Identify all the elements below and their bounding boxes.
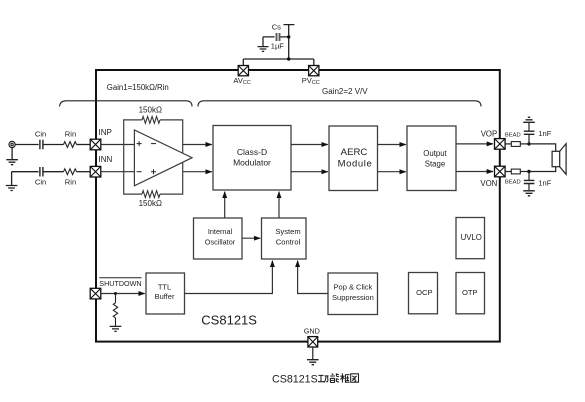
CJK glyph neng — [330, 373, 339, 382]
block Output Stage — [407, 126, 456, 191]
svg-text:TTL: TTL — [158, 282, 171, 291]
svg-text:VOP: VOP — [481, 129, 497, 138]
CJK glyph tu — [351, 374, 359, 382]
block Pop & Click Suppression — [328, 273, 378, 315]
svg-text:Module: Module — [338, 158, 373, 169]
CJK glyph gong — [318, 375, 329, 382]
wire AVcc-PVcc rail — [243, 59, 313, 66]
pin INP — [90, 128, 112, 150]
input terminal J1 — [9, 141, 15, 147]
block UVLO — [456, 218, 485, 259]
svg-text:Internal: Internal — [208, 227, 233, 236]
speaker LS1 — [552, 144, 566, 175]
svg-text:GND: GND — [304, 327, 320, 336]
svg-text:CS8121S: CS8121S — [272, 373, 318, 385]
svg-text:150kΩ: 150kΩ — [139, 105, 162, 114]
resistor Rin bottom — [64, 169, 77, 175]
wire Cin to Rin — [43, 144, 64, 146]
svg-text:Pop & Click: Pop & Click — [334, 283, 373, 292]
svg-text:Rin: Rin — [65, 129, 76, 138]
wire node to pulldown resistor — [115, 294, 117, 303]
block AERC Module — [329, 126, 378, 191]
pin PVCC — [302, 66, 320, 86]
wire INN to op-amp — [101, 171, 135, 173]
ground for Cs — [258, 47, 269, 52]
pin INN — [90, 155, 112, 177]
wire AERC to Output Stage bottom — [378, 171, 406, 173]
IC boundary box CS8121S — [96, 70, 500, 342]
gain2 brace annotation — [198, 101, 481, 107]
wire TTL buffer to System Control — [185, 261, 273, 294]
svg-text:BEAD: BEAD — [505, 179, 521, 185]
svg-text:Gain2=2 V/V: Gain2=2 V/V — [322, 87, 368, 96]
node junction VOP — [527, 142, 530, 145]
wire Rin to INP — [77, 144, 91, 146]
resistor 150k bottom feedback — [142, 191, 160, 198]
wire terminal to Cin — [15, 144, 38, 146]
wire GND pin to ground — [312, 347, 314, 360]
svg-text:System: System — [275, 227, 300, 236]
capacitor Cs — [277, 33, 280, 41]
pin VOP — [481, 129, 505, 149]
ground at input bottom — [6, 186, 18, 191]
pin GND — [304, 327, 320, 347]
svg-text:Cin: Cin — [35, 129, 46, 138]
resistor 150k top feedback — [142, 117, 160, 124]
node junction shutdown pulldown — [114, 292, 117, 295]
junction node Cs branch — [287, 35, 290, 38]
ground shutdown pulldown — [110, 326, 122, 331]
ground GND pin — [307, 360, 319, 365]
ground below 1nF bottom — [523, 191, 535, 196]
svg-text:Suppression: Suppression — [332, 293, 374, 302]
svg-text:1nF: 1nF — [538, 178, 551, 187]
wire Class-D to AERC top — [291, 144, 328, 146]
feedback loop wires — [124, 120, 183, 194]
svg-text:CS8121S: CS8121S — [201, 313, 257, 328]
svg-text:PVCC: PVCC — [302, 76, 320, 86]
svg-text:Class-D: Class-D — [237, 147, 267, 157]
svg-text:BEAD: BEAD — [505, 133, 521, 139]
block System Control — [262, 218, 307, 259]
node junction VON — [527, 170, 530, 173]
ground at input top — [6, 160, 18, 165]
svg-text:OCP: OCP — [416, 288, 432, 297]
capacitor Cin bottom — [40, 167, 43, 177]
svg-text:INN: INN — [99, 155, 113, 164]
svg-text:Gain1=150kΩ/Rin: Gain1=150kΩ/Rin — [107, 83, 169, 92]
ferrite bead bottom — [511, 169, 520, 174]
wire terminal to ground — [11, 148, 13, 160]
wire resistor to ground — [115, 318, 117, 326]
svg-text:150kΩ: 150kΩ — [139, 199, 162, 208]
wire op-amp to Class-D bottom — [183, 171, 212, 173]
wire Output Stage to VOP — [456, 143, 493, 145]
svg-text:INP: INP — [99, 128, 112, 137]
svg-text:AERC: AERC — [341, 147, 368, 158]
svg-text:Control: Control — [276, 237, 301, 246]
pin VON — [480, 166, 505, 188]
capacitor 1nF top — [524, 131, 535, 134]
resistor Rin top — [64, 142, 77, 148]
ferrite bead top — [511, 142, 520, 147]
label SHUTDOWN with overline — [99, 278, 141, 288]
power rail T-bar — [284, 25, 295, 59]
wire Internal Oscillator to Class-D — [224, 192, 226, 218]
wire Class-D to AERC bottom — [291, 171, 328, 173]
wire VOP to bead — [505, 143, 511, 145]
block OTP — [456, 273, 485, 314]
wire 1nF to ground bottom — [528, 184, 530, 191]
wire node to speaker bottom — [529, 167, 556, 172]
wire op-amp to Class-D top — [183, 144, 212, 146]
svg-text:Cs: Cs — [272, 22, 281, 31]
block OCP — [409, 273, 438, 314]
gain1 brace annotation — [60, 101, 193, 107]
capacitor Cin top — [40, 140, 43, 150]
svg-text:SHUTDOWN: SHUTDOWN — [99, 279, 141, 288]
ground above 1nF top (inverted) — [523, 117, 535, 122]
block Class-D Modulator — [213, 126, 291, 191]
capacitor 1nF bottom — [524, 180, 535, 183]
wire System Control to Class-D — [278, 192, 280, 218]
wire Internal Oscillator to System Control — [242, 237, 260, 239]
wire INP to op-amp — [101, 144, 135, 146]
wire VON to bead — [505, 171, 511, 173]
svg-text:1nF: 1nF — [538, 129, 551, 138]
CJK glyph kuang — [340, 373, 349, 382]
svg-text:UVLO: UVLO — [461, 233, 482, 242]
wire 1nF to ground top — [528, 123, 530, 132]
wire Output Stage to VON — [456, 171, 493, 173]
wire bead to node bottom — [520, 171, 529, 173]
wire node to speaker top — [529, 144, 556, 151]
block Internal Oscillator — [194, 218, 243, 259]
svg-text:Output: Output — [423, 149, 447, 158]
wire node to 1nF bottom — [528, 172, 530, 181]
svg-text:OTP: OTP — [462, 288, 478, 297]
svg-text:1µF: 1µF — [271, 41, 284, 50]
svg-text:VON: VON — [480, 179, 497, 188]
block TTL Buffer — [146, 273, 185, 314]
wire AERC to Output Stage top — [378, 144, 406, 146]
wire input bottom row — [12, 171, 39, 173]
svg-text:Cin: Cin — [35, 177, 46, 186]
svg-text:Stage: Stage — [425, 159, 445, 168]
wire bead to node top — [520, 143, 529, 145]
svg-text:Oscillator: Oscillator — [205, 237, 236, 246]
svg-text:AVCC: AVCC — [233, 76, 250, 86]
pin SHUTDOWN — [90, 288, 101, 299]
svg-text:Rin: Rin — [65, 177, 76, 186]
wire Pop Click to System Control — [298, 261, 328, 294]
wire Cin to Rin bottom — [43, 171, 64, 173]
svg-text:Buffer: Buffer — [155, 292, 175, 301]
wire node to 1nF top — [528, 135, 530, 144]
svg-text:Modulator: Modulator — [233, 158, 271, 168]
wire Cs branch — [263, 37, 289, 46]
wire SHUTDOWN to TTL buffer — [101, 293, 145, 295]
resistor pulldown (vertical) — [113, 303, 117, 318]
junction node on rail — [287, 57, 290, 60]
caption CS8121S functional diagram — [272, 373, 359, 385]
pin AVCC — [233, 66, 250, 86]
wire input bottom to ground — [11, 172, 13, 186]
wire Rin to INN — [77, 171, 91, 173]
op-amp U1 — [134, 130, 192, 186]
